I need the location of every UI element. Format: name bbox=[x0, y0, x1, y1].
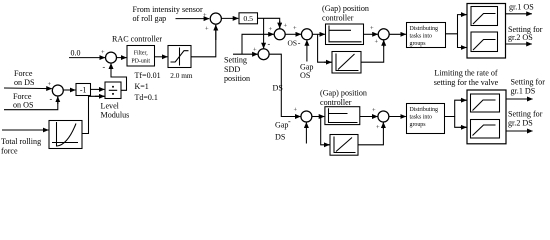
block distributing tasks DS bbox=[407, 104, 445, 134]
svg-text:Distributing: Distributing bbox=[410, 107, 439, 113]
svg-text:gr.1 DS: gr.1 DS bbox=[511, 87, 536, 96]
node label Setting SDD position bbox=[224, 56, 250, 83]
wire force block output to divider lower input bbox=[82, 96, 104, 133]
svg-text:Gap: Gap bbox=[275, 120, 288, 129]
svg-text:+: + bbox=[294, 107, 298, 114]
svg-text:Tf=0.01: Tf=0.01 bbox=[135, 71, 161, 80]
svg-text:force: force bbox=[1, 146, 18, 155]
wire branch 0.5 output down to C top bbox=[263, 18, 265, 48]
svg-text:Setting for: Setting for bbox=[511, 78, 546, 87]
svg-text:+: + bbox=[375, 39, 379, 46]
svg-text:-: - bbox=[268, 40, 271, 49]
svg-text:groups: groups bbox=[410, 41, 427, 47]
svg-text:RAC controller: RAC controller bbox=[112, 35, 162, 44]
input Gap DS bbox=[305, 122, 307, 143]
wire G to filter block bbox=[116, 57, 126, 59]
svg-text:-: - bbox=[298, 39, 301, 48]
input label Force on OS bbox=[13, 92, 33, 110]
wire intensity sensor into summing A bbox=[176, 18, 210, 20]
svg-text:+: + bbox=[370, 25, 374, 32]
block divider bbox=[105, 82, 121, 99]
svg-text:K=1: K=1 bbox=[135, 82, 149, 91]
wire A to 0.5 block bbox=[221, 17, 238, 19]
svg-text:OS: OS bbox=[288, 38, 297, 47]
input label Force on DS bbox=[14, 69, 34, 87]
svg-text:controller: controller bbox=[320, 98, 352, 107]
block DS integrator (ramp) bbox=[330, 135, 358, 156]
wire DS blocks to E2 bbox=[360, 116, 378, 118]
block total rolling force curve bbox=[49, 121, 82, 149]
input label Total rolling force bbox=[1, 137, 41, 156]
block rate limiter OS gr2 bbox=[471, 32, 498, 52]
svg-text:PD-unit: PD-unit bbox=[131, 58, 150, 64]
output gr.1 OS bbox=[506, 13, 532, 15]
svg-text:+: + bbox=[293, 25, 297, 32]
wire filter to limiter bbox=[155, 56, 168, 58]
block -1 bbox=[76, 84, 91, 96]
svg-text:+: + bbox=[376, 124, 380, 131]
block distributing tasks OS bbox=[407, 23, 446, 48]
svg-text:groups: groups bbox=[410, 122, 427, 128]
wire setting SDD into C bbox=[233, 53, 258, 55]
gain block 0.5 bbox=[239, 13, 258, 24]
caption Limiting the rate of setting for the valve bbox=[434, 68, 499, 87]
svg-text:+: + bbox=[101, 49, 105, 56]
svg-text:Filter,: Filter, bbox=[134, 50, 149, 56]
svg-text:-1: -1 bbox=[80, 86, 87, 95]
svg-text:+: + bbox=[205, 26, 209, 33]
svg-text:+: + bbox=[253, 47, 257, 54]
wire C output to DS row into D2 bbox=[269, 54, 301, 116]
output gr.1 DS bbox=[506, 98, 533, 100]
summing junction E bbox=[378, 29, 389, 40]
summing junction H bbox=[52, 85, 63, 96]
svg-text:Limiting the rate of: Limiting the rate of bbox=[434, 68, 497, 77]
svg-text:From intensity sensor: From intensity sensor bbox=[133, 5, 203, 14]
svg-text:2.0 mm: 2.0 mm bbox=[170, 71, 193, 80]
svg-text:+: + bbox=[203, 12, 207, 19]
summing junction D bbox=[301, 29, 312, 40]
block rate limiter DS gr2 bbox=[471, 120, 500, 139]
block rate limiter OS gr1 bbox=[471, 7, 498, 26]
wire force OS into H bottom bbox=[4, 97, 58, 110]
block OS proportional (step response) bbox=[326, 24, 364, 45]
output gr.2 OS bbox=[506, 43, 532, 45]
block DS proportional (step response) bbox=[325, 107, 360, 125]
svg-text:Setting: Setting bbox=[224, 56, 247, 65]
input label: From intensity sensor of roll gap bbox=[133, 5, 203, 23]
title (Gap) position controller OS bbox=[322, 4, 369, 22]
block limiter 2.0 mm bbox=[168, 46, 191, 68]
block rate limiter OS outer bbox=[467, 4, 506, 59]
svg-text:gr.1 OS: gr.1 OS bbox=[509, 2, 534, 11]
wire force DS into H bbox=[4, 87, 52, 90]
wire limiter output up to A bottom bbox=[191, 25, 216, 57]
wire divider output up into G bottom bbox=[111, 63, 127, 90]
block OS integrator (ramp) bbox=[332, 52, 361, 74]
block rate limiter DS gr1 bbox=[471, 94, 500, 112]
wire distributing OS to rate limiter box bbox=[446, 15, 467, 34]
svg-text:(Gap) position: (Gap) position bbox=[322, 4, 369, 13]
wire H to -1 block bbox=[63, 89, 75, 91]
svg-text:-: - bbox=[103, 63, 106, 72]
svg-text:position: position bbox=[224, 74, 250, 83]
summing junction G bbox=[106, 52, 117, 63]
svg-text:controller: controller bbox=[322, 13, 354, 22]
svg-text:+: + bbox=[48, 81, 52, 88]
svg-text:Total rolling: Total rolling bbox=[1, 137, 41, 146]
svg-text:Td=0.1: Td=0.1 bbox=[135, 93, 158, 102]
svg-text:on DS: on DS bbox=[14, 78, 34, 87]
block Filter PD-unit bbox=[127, 46, 155, 67]
svg-text:gr.2 DS: gr.2 DS bbox=[508, 119, 533, 128]
svg-text:+: + bbox=[284, 23, 288, 30]
parameter labels Tf K Td bbox=[135, 71, 161, 102]
wire total rolling force into block bbox=[2, 129, 48, 131]
svg-text:0.0: 0.0 bbox=[71, 49, 81, 58]
svg-text:-: - bbox=[50, 95, 53, 104]
svg-text:Gap: Gap bbox=[300, 62, 313, 71]
svg-text:+: + bbox=[372, 107, 376, 114]
label Level Modulus bbox=[101, 102, 130, 120]
wire E to distributing OS bbox=[389, 33, 406, 35]
svg-text:Setting for: Setting for bbox=[508, 110, 543, 119]
wire 0.5 output to B top corner bbox=[258, 18, 280, 28]
wire E2 to distributing DS bbox=[389, 116, 406, 118]
svg-text:Modulus: Modulus bbox=[101, 111, 130, 120]
summing junction E2 bbox=[378, 111, 389, 122]
title (Gap) position controller DS bbox=[320, 89, 367, 107]
svg-text:OS: OS bbox=[300, 71, 310, 80]
svg-text:gr.2 OS: gr.2 OS bbox=[508, 33, 533, 42]
input Gap OS bbox=[306, 40, 308, 61]
summing junction C bbox=[258, 49, 269, 60]
svg-text:Distributing: Distributing bbox=[410, 26, 439, 32]
summing junction B bbox=[274, 29, 285, 40]
wire setting branch up to B left bbox=[242, 34, 274, 54]
svg-text:DS: DS bbox=[273, 84, 283, 93]
wire -1 to divider bbox=[91, 88, 105, 90]
svg-text:DS: DS bbox=[275, 132, 285, 141]
output gr.2 DS bbox=[506, 130, 533, 132]
svg-text:tasks into: tasks into bbox=[410, 34, 432, 40]
summing junction D2 bbox=[301, 111, 312, 122]
svg-text:Level: Level bbox=[101, 102, 120, 111]
svg-text:-: - bbox=[288, 117, 291, 126]
svg-text:on OS: on OS bbox=[13, 100, 33, 109]
wire B to D bbox=[285, 33, 301, 35]
svg-text:setting for the valve: setting for the valve bbox=[434, 78, 499, 87]
summing junction A bbox=[210, 13, 221, 24]
svg-text:SDD: SDD bbox=[224, 65, 240, 74]
svg-text:+: + bbox=[269, 26, 273, 33]
svg-text:(Gap) position: (Gap) position bbox=[320, 89, 367, 98]
wire OS blocks to E bbox=[364, 33, 378, 35]
svg-text:0.5: 0.5 bbox=[243, 14, 253, 23]
svg-text:tasks into: tasks into bbox=[410, 115, 432, 121]
block rate limiter DS outer bbox=[467, 90, 506, 144]
svg-text:of roll gap: of roll gap bbox=[133, 14, 167, 23]
wire D to OS controller blocks bbox=[312, 33, 325, 35]
wire distributing DS to rate limiter box bbox=[445, 100, 467, 116]
wire D2 to DS controller blocks bbox=[312, 116, 325, 118]
